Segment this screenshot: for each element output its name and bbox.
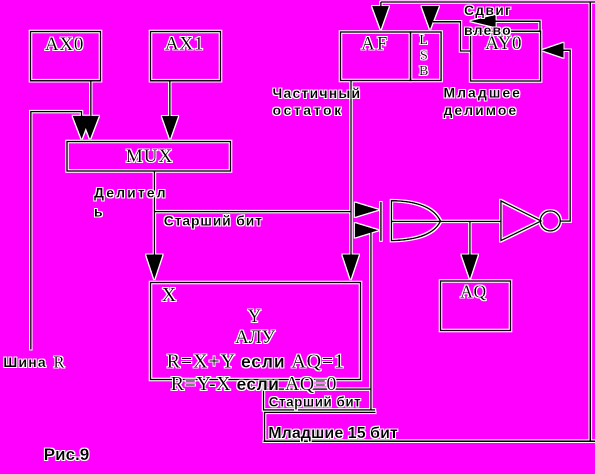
node label box Старший бит (264, 380, 376, 410)
svg-text:X: X (162, 284, 177, 306)
svg-text:АЛУ: АЛУ (235, 327, 276, 348)
wire MUX down to ALU X (153, 171, 155, 255)
svg-text:ь: ь (94, 204, 104, 220)
svg-text:Старший бит: Старший бит (164, 213, 263, 229)
register AX0 (31, 32, 101, 81)
gate OR U1 (391, 201, 440, 241)
wire AX0 to MUX (90, 81, 92, 116)
svg-text:R=X+Y если AQ=1: R=X+Y если AQ=1 (167, 351, 345, 373)
register AF (341, 32, 411, 81)
svg-text:Старший бит: Старший бит (269, 395, 361, 410)
wire AF down to ALU Y (350, 81, 352, 255)
arrowhead into AF top (372, 6, 389, 30)
svg-text:Младшие 15 бит: Младшие 15 бит (268, 425, 398, 442)
svg-text:Шина: Шина (3, 354, 47, 370)
node label box Младшие 15 бит (265, 412, 376, 441)
wire AX1 to MUX (169, 81, 171, 116)
svg-text:S: S (420, 49, 428, 64)
wire shift-left from AY0 left (433, 22, 471, 51)
svg-text:AF: AF (361, 34, 389, 54)
svg-text:AX1: AX1 (165, 33, 204, 54)
svg-text:Y: Y (248, 307, 261, 327)
wire high bit from gate input 2 down (370, 232, 372, 411)
svg-text:остаток: остаток (273, 102, 344, 118)
arrowhead AX1 into MUX (162, 116, 178, 139)
arrowhead AX0 into MUX (81, 116, 99, 140)
svg-text:R: R (54, 352, 65, 371)
register AY0 (471, 31, 541, 81)
svg-text:R=Y-X если AQ=0: R=Y-X если AQ=0 (171, 373, 337, 395)
wire shift-left from AY0 top right (493, 21, 540, 31)
wire arrow stem into AF (380, 2, 382, 7)
svg-text:Сдвиг: Сдвиг (464, 2, 512, 18)
svg-text:Частичный: Частичный (273, 85, 362, 101)
svg-text:Делител: Делител (94, 185, 168, 201)
arrowhead bus R into MUX (73, 116, 91, 140)
wire gate input bar (380, 202, 382, 241)
svg-text:делимое: делимое (444, 102, 519, 118)
arrowhead into LSB top (422, 6, 440, 30)
register AQ (441, 281, 511, 331)
register AX1 (151, 32, 221, 81)
svg-text:Младшее: Младшее (444, 85, 522, 101)
inverter U2 (501, 201, 541, 241)
register LSB (411, 32, 442, 81)
arrowhead into gate input 1 (355, 203, 379, 218)
svg-text:B: B (419, 64, 428, 79)
svg-text:Рис.9: Рис.9 (44, 445, 89, 464)
alu ALU box (151, 283, 361, 380)
arrowhead shift-left (470, 15, 496, 28)
svg-text:L: L (419, 33, 428, 48)
arrowhead AF into ALU Y (342, 255, 359, 280)
arrowhead into AY0 right (542, 43, 564, 58)
svg-text:MUX: MUX (126, 146, 173, 167)
svg-text:влево: влево (464, 22, 512, 38)
arrowhead into gate input 2 (355, 223, 379, 238)
svg-text:AX0: AX0 (45, 34, 84, 55)
wire inverter output up to AY0 (560, 50, 570, 221)
wire gate output (392, 220, 501, 222)
wire MUX branch to gate (154, 211, 351, 213)
wire bus R to MUX (31, 112, 82, 350)
arrowhead into AQ (461, 255, 478, 280)
wire feedback top (381, 1, 595, 3)
svg-text:AQ: AQ (460, 282, 486, 302)
mux MUX (67, 142, 231, 172)
inverter bubble (540, 211, 560, 231)
wire branch down to AQ (469, 221, 471, 254)
arrowhead MUX into ALU X (146, 255, 163, 280)
